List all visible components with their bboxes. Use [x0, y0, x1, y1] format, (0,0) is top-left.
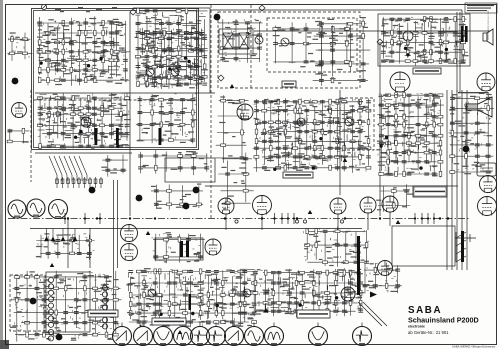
tuner / IF strip RC network cluster — [37, 16, 130, 86]
video filter cluster — [218, 153, 253, 210]
marker 1 — [193, 187, 200, 194]
diamond test point markers — [130, 5, 383, 81]
video amplifier cluster — [136, 94, 197, 143]
svg-text:SABA: SABA — [408, 305, 442, 316]
transformer core video IF T1 — [95, 128, 98, 145]
box power supply enclosure — [155, 238, 203, 260]
detector lower cluster — [138, 150, 209, 175]
revision note text lines — [467, 5, 494, 11]
transformer core audio output — [461, 26, 464, 42]
wire vertical right — [379, 42, 381, 216]
tuning voltage arrow row — [45, 229, 78, 242]
wire right bundle 3 — [456, 90, 458, 270]
marker 3 power — [183, 203, 190, 210]
box oscillator coil unit — [46, 272, 90, 332]
tube V3 EF80 — [237, 104, 253, 120]
wire tube V6 cathode — [337, 214, 339, 230]
scope trace bottom 1 — [113, 327, 132, 346]
scope trace bottom 6 — [207, 327, 226, 346]
wire tube V8 cathode — [389, 212, 391, 226]
tube V15 PL500 line output — [341, 287, 355, 301]
AGC network cluster — [313, 17, 371, 86]
transformer core mains T4 — [180, 241, 183, 257]
band filter X transformer symbols — [223, 33, 249, 49]
coil chain oscillator — [100, 285, 108, 329]
tube V2 triode — [81, 117, 91, 127]
wire right bundle 2 — [451, 90, 453, 270]
damper stage cluster — [362, 263, 402, 294]
wire convergence link — [205, 185, 458, 187]
coil chain tuner L-assembly — [46, 277, 54, 327]
EF80 IF stage cluster — [216, 95, 249, 163]
wire top B+ bus — [210, 9, 462, 11]
wire tube V4 cathode — [225, 214, 227, 230]
tube V18 PL95 audio driver — [403, 31, 413, 41]
tuner unit lower cluster — [10, 271, 122, 342]
scope trace bottom 3 — [154, 327, 173, 346]
tube V16 PY500 damper — [378, 261, 393, 276]
transformer core line output — [357, 236, 360, 295]
tube V8 ECC82 — [382, 196, 398, 212]
label box Bild-ZF-Verstaerker — [283, 172, 313, 178]
svg-text:www.elektrotanya.com schematic: www.elektrotanya.com schematics — [0, 214, 3, 260]
chassis line terminal ticks — [64, 213, 435, 224]
label box NF-Verstaerker — [413, 68, 441, 74]
scope trace bottom 2 — [134, 327, 153, 346]
adjustment symbol top frame — [41, 4, 46, 9]
marker 3 mid — [136, 195, 143, 202]
label box Tandemabstimmung — [152, 318, 186, 325]
tube V5 PL36 — [253, 196, 272, 215]
tube V13 EL84 audio output — [390, 72, 410, 92]
band filter cluster — [218, 19, 262, 63]
IF output filter cluster — [101, 155, 128, 177]
scanned page left edge shadow — [0, 0, 3, 349]
wire long vertical feed 2 — [117, 180, 119, 268]
scope trace sine C — [49, 200, 68, 219]
wire focus terminal row — [455, 234, 476, 242]
mains switch cluster — [151, 184, 203, 210]
scope trace bottom 5 — [191, 327, 210, 346]
wire B+ feed right — [456, 12, 458, 92]
box dashed sound IF enclosure — [267, 18, 357, 72]
wire tube V5 cathode — [261, 215, 263, 230]
wire tuner top bus — [133, 7, 210, 9]
scope trace bottom 11 — [353, 327, 372, 346]
scope trace bottom 4 — [174, 327, 193, 346]
tube V9 DY86 — [480, 176, 497, 193]
sound IF amplifier cluster — [273, 21, 355, 68]
transistor T3 AF121 — [255, 36, 263, 44]
transistor T5 AF121 IF — [297, 118, 305, 126]
scope trace sine B — [27, 199, 45, 217]
wire B+ feed right 2 — [459, 12, 461, 92]
wire long vertical feed — [113, 180, 115, 330]
scope trace sine A — [8, 200, 26, 218]
sound discriminator cluster — [253, 98, 371, 173]
video IF stage cluster — [37, 92, 131, 148]
box video detector enclosure — [165, 158, 215, 182]
transformer core sound T3 — [159, 128, 162, 145]
focus test pattern box — [477, 163, 496, 176]
box tuner section outer border — [32, 9, 199, 150]
box deflection output enclosure — [392, 226, 455, 266]
scanned page bottom-left dark corner — [0, 340, 9, 349]
tube V12 PCL85 vertical b — [121, 244, 138, 261]
transistor T7 AC153 — [148, 289, 156, 297]
tube V6 PCL85 — [330, 198, 346, 214]
marker 2b — [89, 187, 96, 194]
picture tube CRT AW59-91 — [458, 92, 492, 117]
svg-text:ab Geräte-Nr.: 21 901: ab Geräte-Nr.: 21 901 — [408, 330, 449, 335]
junction dots chassis line — [67, 217, 449, 219]
label box Ton ZF — [282, 81, 296, 87]
box tuner section inner border — [34, 11, 197, 148]
wire — [461, 10, 463, 60]
marker 2 — [12, 78, 19, 85]
scope trace bottom 10 — [309, 327, 328, 346]
transformer core video IF T2 — [116, 128, 119, 145]
tube V14 EM84 — [477, 73, 495, 91]
coil chain lower — [46, 329, 54, 341]
VHF mixer-oscillator cluster — [135, 8, 208, 89]
mixer mid cluster — [139, 28, 208, 56]
wire long vertical left rail — [129, 12, 131, 216]
marker dot right — [463, 146, 470, 153]
vertical deflection cluster — [126, 268, 256, 327]
label box Osteuropa note — [413, 186, 447, 197]
scope trace bottom 7 — [225, 327, 244, 346]
tube V1 PCF86 tuner — [12, 103, 27, 118]
convergence network cluster — [376, 184, 413, 212]
scope trace bottom 8 — [245, 327, 264, 346]
wire right bundle 1 — [446, 90, 448, 270]
channel selector switch fan — [49, 156, 87, 181]
label box Amplitudensieb — [88, 310, 118, 317]
box band filter enclosure — [219, 29, 253, 54]
switch contact comb — [56, 177, 103, 188]
open terminal circles on chassis line — [235, 220, 344, 223]
transistor T6 AF126 — [345, 118, 353, 126]
transistor T1 AF139 — [146, 68, 154, 76]
station keyboard network cluster — [36, 233, 95, 259]
tube V17 rectifier EZ80 — [205, 239, 221, 255]
choke core vertical output — [189, 294, 192, 310]
svg-text:electronic: electronic — [408, 325, 425, 329]
oscillator AF139 cluster — [143, 58, 205, 88]
line oscillator cluster — [303, 227, 369, 267]
transformer core audio output b — [465, 26, 468, 42]
tuner input lower cluster — [7, 128, 29, 143]
ground symbols — [50, 84, 401, 334]
wire dashed IF shield — [30, 90, 32, 182]
power supply rectifier cluster — [151, 232, 205, 263]
marker 3 bottom-left — [30, 298, 37, 305]
wire tube V7 cathode — [367, 213, 369, 230]
deflection yoke hatching — [456, 232, 466, 262]
transistor T4 AF121 — [281, 38, 289, 46]
marker 4 — [56, 334, 63, 341]
tube V4 PCL84 — [218, 198, 234, 214]
tube V7 PY88 — [360, 197, 376, 213]
transistor T2 AF139b — [171, 68, 179, 76]
box dashed sound IF outer enclosure — [218, 12, 360, 88]
audio output stage cluster — [381, 17, 469, 66]
wire keyboard feed 2 — [89, 228, 91, 268]
wire right bundle 4 — [461, 90, 463, 270]
deflection yoke core — [461, 231, 464, 262]
box top-right revision note — [465, 3, 497, 13]
horizontal deflection cluster — [253, 268, 365, 317]
wire right bundle 5 — [466, 90, 468, 270]
box dashed ratio detector enclosure — [340, 98, 374, 150]
tube V11 PCL85 vertical — [121, 225, 138, 242]
wire dashed section divider — [250, 5, 252, 88]
wire heater bus — [30, 228, 362, 230]
tube V10 PD500 — [478, 197, 497, 216]
wire dashed shield boundary — [210, 5, 212, 219]
wire vertical mid-right — [339, 90, 341, 195]
wire sound B+ bus — [255, 30, 490, 32]
wire keyboard feed — [67, 219, 69, 268]
speaker symbol — [483, 29, 493, 45]
svg-text:SABA WERKE Villingen/Schwarzw.: SABA WERKE Villingen/Schwarzw. — [452, 345, 496, 349]
transformer core mains T4b — [186, 241, 189, 257]
marker 3 top — [214, 14, 221, 21]
wire dashed tuner internal divider — [34, 99, 197, 101]
wire video IF bottom bus — [35, 152, 132, 154]
svg-text:Schauinsland P200D: Schauinsland P200D — [408, 316, 479, 325]
box audio output enclosure — [378, 14, 470, 66]
label box Horiz.-Ablenkung — [297, 310, 330, 318]
CRT drive network cluster — [449, 92, 494, 174]
sync separator cluster — [376, 93, 444, 178]
spacer — [140, 325, 141, 326]
scope trace bottom 9 — [265, 327, 284, 346]
top margin tick labels — [42, 7, 117, 12]
wire vertical feed — [209, 8, 211, 93]
diagonal wires to yoke — [358, 302, 387, 326]
antenna input cluster — [7, 32, 32, 61]
diode arrow damper — [370, 292, 377, 298]
chassis dash-dot separation line — [8, 218, 470, 220]
transistor T8 AC153b — [243, 289, 251, 297]
wire IF section boundary bus — [35, 92, 215, 94]
box dashed tuner keyboard unit — [10, 275, 45, 331]
